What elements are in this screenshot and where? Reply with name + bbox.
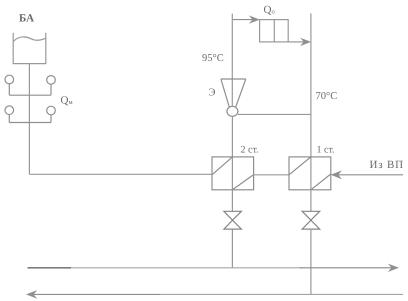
svg-text:95°С: 95°С: [202, 53, 224, 64]
svg-text:Qо: Qо: [264, 4, 275, 16]
wire tank stem: [28, 64, 30, 175]
wire radiator outlet arrow to return riser: [288, 38, 311, 46]
wire exchanger 1st to valve V2: [310, 190, 312, 212]
tank BA: [13, 33, 46, 64]
wire valve V1 to return main: [231, 229, 233, 268]
wire supply main with right arrow: [28, 264, 400, 272]
wire row 2 bracket: [9, 122, 51, 124]
elevator Э funnel: [221, 79, 246, 107]
elevator Э nozzle circle: [227, 106, 238, 116]
svg-text:70°С: 70°С: [316, 91, 338, 102]
wire valve V2 down to bottom main: [310, 229, 312, 294]
svg-text:БА: БА: [19, 13, 34, 25]
heat exchanger stage 2: [212, 157, 254, 190]
label Э: [209, 88, 216, 99]
label Из ВП: [370, 159, 404, 171]
pump group row 1 right circle: [47, 76, 56, 96]
heat load radiator Qо: [260, 20, 289, 42]
svg-text:1 ст.: 1 ст.: [317, 145, 335, 156]
svg-text:Э: Э: [209, 88, 216, 99]
wire return main with left arrow: [26, 290, 403, 299]
wire tank line to exchanger 2st: [29, 173, 212, 175]
wire row 1 bracket: [9, 94, 51, 96]
valve V1: [224, 211, 242, 229]
wire supply arrow into heat load: [232, 15, 259, 23]
pump group row 2 right circle: [47, 106, 56, 122]
wire return riser (right vertical): [310, 14, 312, 190]
svg-text:2 ст.: 2 ст.: [241, 145, 259, 156]
label 70°C: [316, 91, 338, 102]
svg-text:Из ВП: Из ВП: [370, 159, 404, 171]
label 1 ст.: [317, 145, 335, 156]
wire between exchangers: [254, 174, 290, 176]
wire supply riser (left vertical) upper: [231, 14, 233, 107]
svg-text:Qм: Qм: [61, 94, 73, 106]
pump group row 1 left circle: [5, 75, 14, 95]
wire exchanger 2st to valve V1: [231, 190, 233, 212]
heat exchanger stage 1: [289, 157, 331, 190]
label Qо: [264, 4, 275, 16]
wire inlet from ВП with arrow: [331, 170, 403, 179]
label 2 ст.: [241, 145, 259, 156]
pump group row 2 left circle: [5, 106, 14, 123]
valve V2: [302, 211, 320, 229]
label 95°C: [202, 53, 224, 64]
label Qм: [61, 94, 73, 106]
label БА: [19, 13, 34, 25]
wire supply riser lower (elevator to exchanger 2st): [231, 116, 233, 189]
wire elevator mixing line to return riser: [238, 113, 311, 115]
